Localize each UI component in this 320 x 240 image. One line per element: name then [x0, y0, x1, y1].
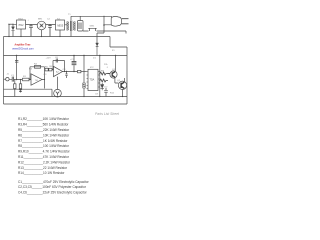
- svg-text:22k: 22k: [104, 64, 108, 66]
- svg-text:C2,C3,C5______100nF 63V Polye: C2,C3,C5______100nF 63V Polyester Capaci…: [18, 185, 86, 189]
- svg-text:7812: 7812: [18, 24, 24, 27]
- svg-text:T1: T1: [68, 14, 71, 16]
- svg-text:R12: R12: [110, 92, 115, 94]
- svg-text:R3: R3: [29, 68, 33, 70]
- svg-text:+: +: [28, 20, 30, 22]
- svg-text:Parts List Sheet: Parts List Sheet: [95, 112, 120, 116]
- svg-text:C3: C3: [44, 74, 48, 76]
- svg-text:R3,R4_________560 1/4W Resi: R3,R4_________560 1/4W Resistor: [18, 123, 68, 127]
- svg-text:R12___________2.2K 1/4W Resi: R12___________2.2K 1/4W Resistor: [18, 160, 70, 164]
- svg-text:C9: C9: [95, 93, 99, 95]
- svg-text:www.ElCircuit.com: www.ElCircuit.com: [12, 46, 33, 50]
- svg-text:C6: C6: [55, 57, 59, 59]
- svg-text:D1: D1: [93, 57, 97, 59]
- svg-text:C1____________470uF 25V Elect: C1____________470uF 25V Electrolytic Cap…: [18, 180, 89, 184]
- svg-text:R13___________22 1/4W Res: R13___________22 1/4W Resistor: [18, 166, 67, 170]
- svg-text:C8: C8: [63, 69, 67, 71]
- svg-text:R6____________10K 1/4W Resi: R6____________10K 1/4W Resistor: [18, 133, 69, 137]
- svg-text:7812: 7812: [18, 18, 24, 20]
- svg-text:R5____________22K 1/4W Resi: R5____________22K 1/4W Resistor: [18, 128, 69, 132]
- svg-text:+12V: +12V: [46, 57, 52, 59]
- svg-text:BR1: BR1: [38, 19, 43, 21]
- svg-text:C1: C1: [11, 75, 15, 77]
- svg-text:R8____________100 1/4W Resi: R8____________100 1/4W Resistor: [18, 144, 69, 148]
- svg-text:C2: C2: [47, 19, 51, 21]
- svg-text:R6: R6: [50, 66, 54, 68]
- svg-text:R11___________47K 1/4W Resi: R11___________47K 1/4W Resistor: [18, 155, 69, 159]
- svg-text:C4,C6_________22uF 25V Elect: C4,C6_________22uF 25V Electrolytic Capa…: [18, 191, 87, 195]
- svg-text:R1,R2_________10K 1/4W Resi: R1,R2_________10K 1/4W Resistor: [18, 117, 69, 121]
- svg-text:D2: D2: [105, 87, 109, 89]
- svg-text:Amplifier Time: Amplifier Time: [15, 43, 32, 46]
- svg-text:R14___________10 1W Resis: R14___________10 1W Resistor: [18, 171, 64, 175]
- svg-text:F1: F1: [112, 50, 115, 52]
- svg-text:IC2: IC2: [90, 67, 94, 69]
- svg-text:R9,R10________4.7K 1/4W Resi: R9,R10________4.7K 1/4W Resistor: [18, 150, 70, 154]
- svg-text:J1: J1: [7, 74, 10, 76]
- svg-text:NE55: NE55: [57, 24, 64, 27]
- svg-text:Q1: Q1: [112, 69, 116, 71]
- svg-text:TDA: TDA: [90, 79, 95, 82]
- svg-text:R7____________1K 1/4W Res: R7____________1K 1/4W Resistor: [18, 139, 67, 143]
- svg-text:SW1: SW1: [90, 26, 96, 28]
- svg-text:.1: .1: [106, 67, 109, 69]
- svg-text:A2: A2: [56, 70, 59, 73]
